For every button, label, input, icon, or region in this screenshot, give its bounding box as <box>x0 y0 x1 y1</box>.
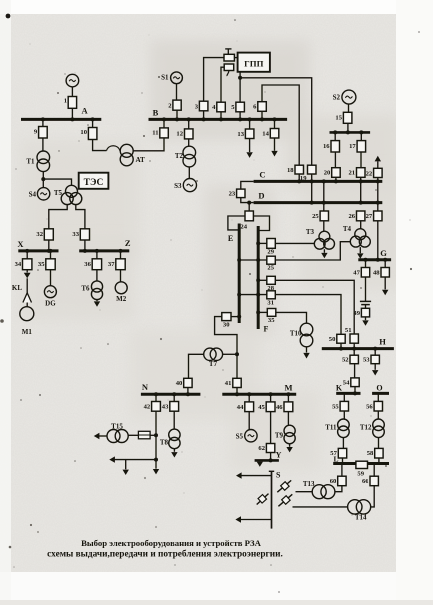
svg-text:D: D <box>258 191 264 201</box>
svg-text:Т8: Т8 <box>160 439 169 447</box>
breaker 4 <box>212 102 225 112</box>
junction <box>286 392 290 396</box>
breaker 24 <box>240 211 253 231</box>
wire <box>228 216 245 230</box>
wire <box>365 317 367 320</box>
wire <box>374 349 376 356</box>
wire <box>359 247 361 253</box>
breaker 2 <box>168 100 181 110</box>
box GPP (main substation) <box>238 53 270 72</box>
svg-text:40: 40 <box>176 380 183 387</box>
breaker 30 <box>222 313 231 329</box>
transformer T1 <box>26 151 49 172</box>
wire <box>248 394 250 402</box>
junction <box>154 433 158 437</box>
transformer T14 <box>348 500 371 522</box>
svg-text:Т9: Т9 <box>275 432 284 440</box>
junction <box>186 392 190 396</box>
wire <box>275 280 354 334</box>
junction <box>154 458 158 462</box>
svg-text:М2: М2 <box>116 295 127 303</box>
sectionalizer 59 <box>356 461 368 477</box>
node M (bus M) <box>222 383 296 395</box>
svg-text:M: M <box>284 383 292 393</box>
svg-text:58: 58 <box>367 450 374 457</box>
svg-text:14: 14 <box>262 131 269 138</box>
junction <box>256 278 260 282</box>
wire <box>43 179 71 185</box>
motor M1 <box>20 307 34 336</box>
junction <box>256 258 260 262</box>
junction <box>70 117 74 121</box>
svg-text:35: 35 <box>268 317 275 324</box>
breaker 52 <box>342 355 358 364</box>
junction <box>238 117 242 121</box>
breaker 41 <box>225 378 241 387</box>
wire <box>276 312 307 323</box>
wire <box>76 204 85 229</box>
wire <box>26 251 28 259</box>
junction <box>352 347 356 351</box>
junction <box>297 179 301 183</box>
wire <box>306 347 308 353</box>
load arrow <box>372 370 378 375</box>
svg-text:схемы выдачи,передачи и потреб: схемы выдачи,передачи и потребления элек… <box>47 549 283 560</box>
wire <box>377 221 379 260</box>
node S2 tie bus <box>330 131 371 134</box>
svg-text:60: 60 <box>330 478 337 485</box>
transformer T13 <box>303 480 335 499</box>
wire <box>133 138 164 151</box>
node C (bus C) <box>254 170 383 182</box>
svg-text:Е: Е <box>228 234 233 243</box>
wire <box>248 203 250 211</box>
fused disconnect <box>278 494 292 506</box>
load arrow left <box>94 433 100 439</box>
junction <box>83 249 87 253</box>
wire <box>248 412 250 430</box>
svg-text:B: B <box>153 108 159 118</box>
junction <box>359 179 363 183</box>
svg-text:30: 30 <box>223 322 230 329</box>
breaker 20 <box>324 168 340 178</box>
svg-text:Т3: Т3 <box>306 228 315 236</box>
junction <box>339 347 343 351</box>
load arrow <box>153 469 159 474</box>
node B (bus B) <box>149 108 288 120</box>
junction <box>219 117 223 121</box>
wire <box>26 270 28 273</box>
svg-text:16: 16 <box>323 143 330 150</box>
wire <box>262 85 299 165</box>
wire <box>323 249 325 253</box>
junction <box>172 392 176 396</box>
breaker 12 <box>176 129 193 139</box>
junction <box>359 201 363 205</box>
breaker 57 <box>330 448 346 458</box>
cable marker chevron <box>23 293 32 303</box>
svg-text:47: 47 <box>353 270 360 277</box>
node G (bus G) <box>358 248 391 260</box>
wire <box>173 411 175 429</box>
wire <box>220 112 222 120</box>
svg-text:Т10: Т10 <box>290 330 302 338</box>
load arrow <box>382 290 388 295</box>
svg-text:DG: DG <box>45 300 56 308</box>
svg-text:S3: S3 <box>174 182 182 190</box>
breaker 26 <box>349 211 365 221</box>
generator S5 <box>236 430 258 442</box>
breaker 23 <box>229 189 245 198</box>
svg-text:S2: S2 <box>333 94 341 102</box>
junction <box>310 179 314 183</box>
wire <box>155 460 157 469</box>
wire <box>354 364 356 378</box>
wire <box>187 388 189 395</box>
wire <box>176 110 178 119</box>
capacitor marks <box>360 301 371 304</box>
wire <box>48 240 50 251</box>
svg-text:27: 27 <box>366 213 373 220</box>
load arrow left <box>236 472 242 478</box>
junction <box>202 117 206 121</box>
wire <box>323 221 325 232</box>
wire <box>275 242 314 244</box>
wire <box>365 277 367 301</box>
wire <box>335 177 337 181</box>
wire <box>173 394 175 401</box>
wire <box>26 278 28 307</box>
svg-text:Y: Y <box>276 451 282 460</box>
svg-text:F: F <box>264 325 269 334</box>
svg-text:20: 20 <box>324 170 331 177</box>
svg-text:26: 26 <box>349 213 356 220</box>
svg-text:34: 34 <box>15 261 22 268</box>
svg-text:ТЭС: ТЭС <box>84 178 104 188</box>
wire <box>188 167 190 179</box>
junction <box>25 249 29 253</box>
svg-text:S4: S4 <box>29 191 37 199</box>
wire <box>241 181 254 189</box>
wire <box>353 349 355 356</box>
wire <box>221 67 224 102</box>
wire <box>176 84 178 100</box>
breaker 62 <box>258 444 274 453</box>
junction <box>346 130 350 134</box>
wire <box>287 412 289 426</box>
svg-text:Т14: Т14 <box>355 514 367 522</box>
breaker 29 <box>267 239 276 256</box>
svg-text:59: 59 <box>357 471 364 478</box>
breaker 10 <box>80 128 96 140</box>
svg-text:29: 29 <box>267 249 274 256</box>
node F (vertical bus F) <box>258 226 268 334</box>
svg-text:52: 52 <box>342 357 349 364</box>
wire <box>241 519 272 521</box>
node X (bus X) <box>17 239 58 251</box>
svg-text:57: 57 <box>330 450 337 457</box>
wire <box>42 119 44 126</box>
fused disconnect <box>277 480 291 492</box>
wire <box>42 172 44 188</box>
breaker 3 <box>195 101 208 111</box>
wire stub <box>227 71 229 77</box>
node Z (bus Z) <box>79 238 131 251</box>
load arrow left <box>109 456 115 462</box>
motor M2 <box>115 282 127 303</box>
junction <box>376 179 380 183</box>
svg-text:44: 44 <box>237 404 244 411</box>
wire <box>343 411 345 419</box>
junction <box>322 179 326 183</box>
node K (bus K) <box>336 383 361 393</box>
load arrow up <box>375 156 381 162</box>
caption line 2 <box>47 549 283 560</box>
svg-text:N: N <box>142 382 149 392</box>
svg-text:G: G <box>380 248 387 258</box>
load arrow <box>246 152 252 158</box>
breaker 40 <box>176 378 192 387</box>
svg-text:22: 22 <box>366 170 373 177</box>
wire <box>289 444 291 447</box>
svg-text:ГПП: ГПП <box>244 59 263 69</box>
junction <box>260 117 264 121</box>
wire <box>335 486 342 492</box>
svg-text:23: 23 <box>229 191 236 198</box>
wire <box>342 458 344 464</box>
transformer T2 <box>175 146 196 167</box>
wire <box>241 198 254 203</box>
wire <box>293 506 348 508</box>
svg-text:15: 15 <box>335 115 342 122</box>
wire <box>96 270 98 281</box>
breaker 35a <box>267 309 276 324</box>
svg-text:51: 51 <box>345 327 352 334</box>
wire <box>203 111 205 120</box>
load arrow <box>286 447 292 452</box>
junction <box>353 391 357 395</box>
wire <box>249 139 251 153</box>
svg-text:S: S <box>276 471 281 480</box>
node L (bus L right section) <box>367 462 389 465</box>
wire <box>114 459 157 461</box>
breaker 17 <box>349 141 365 152</box>
svg-text:53: 53 <box>363 357 370 364</box>
svg-text:A: A <box>82 106 89 116</box>
wire <box>96 300 98 302</box>
wire <box>384 260 386 268</box>
breaker 44 <box>237 402 254 412</box>
junction <box>41 177 45 181</box>
wire <box>365 305 367 309</box>
wire <box>378 438 380 449</box>
node E (vertical bus E) <box>228 224 239 324</box>
junction <box>238 76 242 80</box>
svg-text:32: 32 <box>36 231 43 238</box>
breaker 13 <box>237 129 253 139</box>
breaker 60 <box>330 476 346 486</box>
svg-text:Т7: Т7 <box>209 360 218 368</box>
box TEC (power plant) <box>79 173 109 189</box>
generator S1 <box>161 72 182 84</box>
junction <box>334 179 338 183</box>
breaker 55 <box>332 401 348 411</box>
junction <box>383 258 387 262</box>
wire <box>343 393 345 401</box>
svg-text:17: 17 <box>349 143 356 150</box>
svg-text:Т6: Т6 <box>81 285 90 293</box>
svg-text:56: 56 <box>366 404 373 411</box>
breaker 42 <box>144 402 161 412</box>
svg-text:Т13: Т13 <box>303 480 315 488</box>
wire <box>274 119 276 128</box>
wire <box>155 411 157 459</box>
junction <box>47 249 51 253</box>
wire <box>360 221 362 229</box>
load arrow <box>171 452 177 457</box>
fused disconnect <box>257 494 269 505</box>
node S (riser) <box>269 471 281 529</box>
svg-text:18: 18 <box>287 167 294 174</box>
junction <box>269 392 273 396</box>
svg-text:Т4: Т4 <box>343 225 352 233</box>
wire <box>231 316 239 318</box>
wire <box>270 412 272 444</box>
breaker 25a <box>267 256 276 271</box>
breaker 25 <box>312 211 328 221</box>
wire crossover hop <box>107 146 120 151</box>
wire <box>249 119 251 129</box>
svg-text:13: 13 <box>237 131 244 138</box>
svg-text:36: 36 <box>84 261 91 268</box>
fuse <box>138 431 156 439</box>
svg-text:Т15: Т15 <box>111 423 123 431</box>
wire <box>239 112 241 120</box>
wire <box>239 294 267 296</box>
junction <box>237 258 241 262</box>
wire <box>236 388 238 395</box>
wire <box>287 394 289 402</box>
svg-text:25: 25 <box>312 213 319 220</box>
svg-text:Т1: Т1 <box>26 158 35 166</box>
load arrow <box>257 462 263 467</box>
breaker 37 <box>108 259 125 270</box>
wire <box>261 111 263 119</box>
breaker 27 <box>366 211 382 221</box>
wire <box>378 458 380 464</box>
wire <box>373 464 375 477</box>
load arrow left <box>235 516 241 522</box>
junction <box>247 201 251 205</box>
wire <box>334 152 336 168</box>
node L (bus L left section) <box>333 454 357 463</box>
wire <box>340 343 342 348</box>
breaker 16 <box>323 141 339 152</box>
svg-text:41: 41 <box>225 380 232 387</box>
transformer T7 <box>204 348 223 368</box>
wire <box>384 277 386 289</box>
junction <box>376 201 380 205</box>
caption line 1 <box>81 538 262 548</box>
load arrow <box>94 301 100 306</box>
svg-text:43: 43 <box>162 404 169 411</box>
breaker 34 <box>15 259 32 270</box>
wire <box>274 138 276 151</box>
wire <box>98 435 107 437</box>
junction <box>49 249 53 253</box>
svg-text:42: 42 <box>144 404 151 411</box>
node D (bus D) <box>254 191 383 203</box>
transformer T5 <box>54 185 82 204</box>
wire <box>125 460 127 470</box>
wire <box>311 174 313 203</box>
breaker 51 <box>345 327 358 343</box>
breaker 32 <box>36 229 53 240</box>
wire <box>163 119 165 128</box>
svg-text:48: 48 <box>373 270 380 277</box>
wire <box>84 240 86 251</box>
junction <box>248 117 252 121</box>
junction <box>269 458 273 462</box>
svg-text:H: H <box>379 336 386 346</box>
junction <box>322 201 326 205</box>
svg-text:X: X <box>17 239 24 249</box>
junction <box>95 249 99 253</box>
breaker 48 <box>373 268 389 278</box>
wire <box>223 353 237 355</box>
breaker 35 <box>38 259 55 270</box>
wire <box>258 311 267 313</box>
load arrow <box>303 353 309 359</box>
wire <box>275 295 341 335</box>
breaker 5 <box>231 102 244 112</box>
wire <box>120 270 122 282</box>
generator S2 <box>333 90 356 104</box>
svg-text:O: O <box>376 383 382 392</box>
breaker 46 <box>276 402 293 412</box>
generator S4 <box>29 188 50 200</box>
generator S3 <box>174 179 196 192</box>
wire <box>71 87 73 97</box>
breaker 31 <box>267 291 276 307</box>
junction <box>41 117 45 121</box>
node N (bus N) <box>141 382 201 394</box>
breaker 14 <box>262 129 278 139</box>
wire <box>239 259 267 261</box>
svg-text:24: 24 <box>240 224 247 231</box>
breaker 18 <box>287 165 303 174</box>
svg-text:М1: М1 <box>22 328 33 336</box>
wire <box>348 104 350 112</box>
wire <box>50 270 52 286</box>
breaker 9 <box>34 127 47 139</box>
wire <box>360 152 362 168</box>
svg-text:25: 25 <box>267 265 274 272</box>
breaker 6 <box>253 102 266 112</box>
svg-text:S5: S5 <box>236 433 244 441</box>
load arrow <box>123 470 129 475</box>
breaker 33 <box>72 229 89 240</box>
svg-text:S1: S1 <box>161 74 169 82</box>
svg-text:Z: Z <box>125 238 131 248</box>
node Y (bus Y) <box>255 451 282 461</box>
breaker 56 <box>366 401 382 411</box>
svg-text:33: 33 <box>72 231 79 238</box>
wire <box>128 434 138 436</box>
wire <box>341 464 343 477</box>
wire <box>241 475 272 477</box>
junction <box>376 258 380 262</box>
